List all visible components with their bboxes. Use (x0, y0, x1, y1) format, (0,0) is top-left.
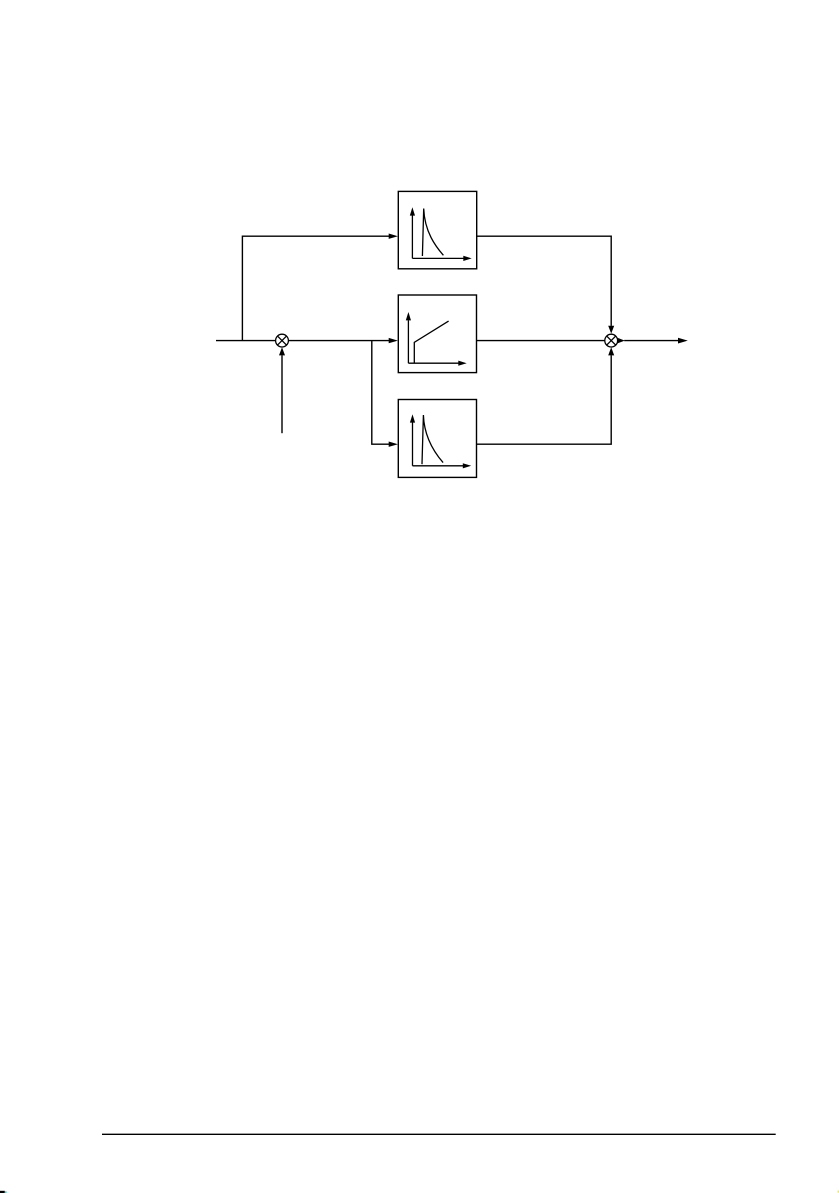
wire multiplier to middle block (289, 340, 390, 342)
block H3 horizontal axis (413, 465, 464, 467)
block H2 piecewise linear curve (414, 321, 448, 363)
wire block H1 output to summing junction (477, 236, 612, 326)
footer rule (102, 1133, 776, 1135)
block H2 horizontal axis arrowhead (458, 361, 466, 366)
arrowhead into block H3 (389, 442, 398, 447)
arrowhead output end (678, 338, 688, 344)
wire bottom branch (372, 341, 389, 445)
arrowhead into multiplier bottom (279, 347, 285, 355)
block H1 horizontal axis (412, 257, 463, 259)
arrowhead into summing junction bottom (608, 347, 614, 355)
scan artifact bottom-left black (0, 1191, 5, 1193)
block H2 vertical axis (407, 320, 409, 363)
block H1 vertical axis (411, 215, 413, 258)
scan artifact bottom-left cyan (5, 1191, 7, 1193)
wire gain input below multiplier (281, 355, 283, 433)
block H2 rectangle (398, 295, 476, 373)
wire input main (216, 340, 276, 342)
wire top branch (242, 236, 389, 340)
block H3 decay curve (422, 415, 443, 464)
wire block H2 output to summing junction (477, 340, 605, 342)
block H1 decay curve (422, 209, 443, 257)
block H3 vertical axis arrowhead (410, 414, 415, 422)
scan artifact bottom-right yellow (838, 1191, 839, 1193)
summing junction circle (605, 334, 618, 347)
multiplier X cross (278, 336, 287, 345)
summing junction X cross (607, 336, 616, 345)
block H3 horizontal axis arrowhead (463, 463, 471, 468)
block H3 rectangle (398, 400, 476, 478)
arrowhead into summing junction top (608, 326, 614, 334)
wire block H3 output to summing junction (477, 355, 612, 444)
arrowhead into block H1 (389, 234, 398, 239)
block H2 horizontal axis (408, 362, 458, 364)
block H2 vertical axis arrowhead (406, 312, 411, 320)
block H1 rectangle (398, 191, 476, 268)
block H3 vertical axis (412, 422, 414, 465)
multiplier junction circle (276, 334, 289, 347)
arrowhead into block H2 (389, 338, 398, 343)
block H1 vertical axis arrowhead (410, 207, 415, 215)
wire output (624, 340, 678, 342)
arrowhead at summing junction output (617, 338, 624, 344)
block H1 horizontal axis arrowhead (463, 256, 471, 261)
